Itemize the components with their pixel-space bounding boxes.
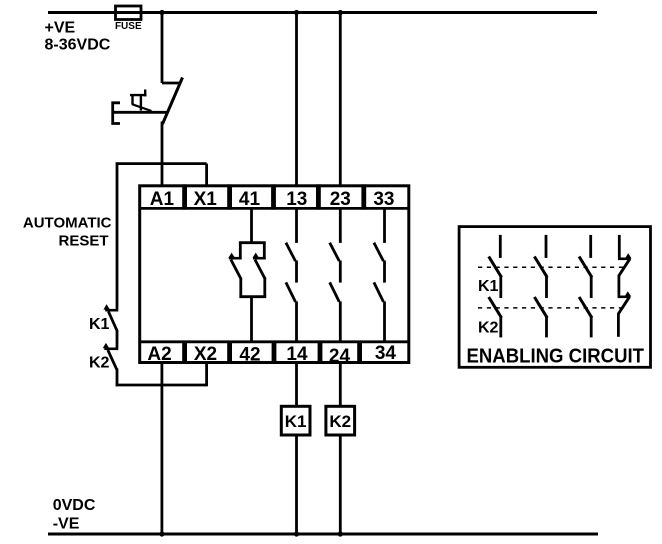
contact K1 NO (reset chain) bbox=[103, 304, 118, 331]
label K2 coil bbox=[329, 412, 351, 431]
wire reset loop left vertical lower bbox=[116, 369, 119, 387]
svg-text:K1: K1 bbox=[89, 316, 110, 333]
enabling circuit box bbox=[459, 227, 650, 368]
svg-text:K2: K2 bbox=[329, 412, 351, 431]
svg-text:K1: K1 bbox=[285, 412, 307, 431]
svg-text:23: 23 bbox=[330, 189, 351, 210]
enabling contact column 4 K2 NC bbox=[618, 275, 632, 337]
wire reset loop top horizontal bbox=[116, 162, 207, 165]
svg-text:K2: K2 bbox=[89, 354, 110, 371]
svg-text:33: 33 bbox=[373, 189, 394, 210]
enabling contact column 2 K2 NO bbox=[534, 277, 547, 338]
wire 24 to coil K2 bbox=[339, 362, 342, 406]
svg-text:AUTOMATIC: AUTOMATIC bbox=[23, 215, 112, 232]
pin 13 bbox=[286, 189, 307, 210]
label K2 enabling bbox=[478, 320, 499, 337]
wire rail to e-stop bbox=[161, 13, 164, 84]
svg-text:RESET: RESET bbox=[58, 232, 108, 249]
label +VE bbox=[45, 20, 76, 37]
wire reset loop left vertical upper bbox=[116, 162, 119, 309]
pin 41 bbox=[239, 189, 261, 210]
svg-text:-VE: -VE bbox=[53, 516, 80, 533]
wire A2 to 0V rail bbox=[160, 362, 163, 534]
fuse F1 bbox=[116, 6, 142, 20]
label K2 (reset chain) bbox=[89, 354, 110, 371]
svg-text:X2: X2 bbox=[194, 344, 217, 365]
node mechanical link K2 (dashed) bbox=[478, 307, 627, 309]
pin 42 bbox=[239, 345, 260, 366]
svg-text:A1: A1 bbox=[150, 189, 175, 210]
enabling contact column 3 K1 NO bbox=[579, 235, 592, 277]
node junction bottom rail / A2 bbox=[159, 531, 164, 536]
svg-text:+VE: +VE bbox=[45, 20, 76, 37]
terminal row bottom: top line bbox=[140, 340, 409, 343]
contact 33-34 K1 NO bbox=[374, 208, 385, 261]
contact 33-34 K2 NO bbox=[374, 261, 385, 342]
node junction bottom rail / K1 bbox=[294, 531, 299, 536]
wire rail to terminal 23 bbox=[339, 13, 342, 188]
pin A1 bbox=[150, 189, 175, 210]
wire 0VDC bottom rail bbox=[48, 533, 598, 536]
pin 14 bbox=[286, 344, 308, 365]
switch S1 latch glyph bbox=[130, 90, 152, 112]
svg-text:K2: K2 bbox=[478, 320, 499, 337]
wire rail to terminal 13 bbox=[295, 13, 298, 188]
svg-text:A2: A2 bbox=[147, 344, 171, 365]
label FUSE bbox=[115, 21, 142, 32]
pin 24 bbox=[329, 346, 351, 367]
wire between K1 and K2 contacts bbox=[116, 331, 119, 348]
coil K2 bbox=[326, 406, 355, 435]
relay U1 outline box bbox=[140, 186, 409, 363]
wire coil K1 to 0V rail bbox=[295, 435, 298, 534]
pin 33 bbox=[373, 189, 394, 210]
pin 34 bbox=[375, 343, 397, 364]
wire coil K2 to 0V rail bbox=[339, 435, 342, 534]
wire X2 stub bbox=[205, 362, 208, 386]
enabling contact column 1 K1 NO bbox=[489, 235, 502, 277]
label K1 (reset chain) bbox=[89, 316, 110, 333]
coil K1 bbox=[281, 406, 310, 435]
pin 23 bbox=[330, 189, 351, 210]
enabling contact column 4 K1 NC bbox=[618, 235, 632, 276]
terminal separators bottom row bbox=[182, 341, 362, 363]
contact K2 NO (reset chain) bbox=[103, 343, 119, 370]
enabling contact column 3 K2 NO bbox=[579, 277, 592, 338]
enabling contact column 1 K2 NO bbox=[489, 277, 502, 338]
svg-text:41: 41 bbox=[239, 189, 261, 210]
label 8-36VDC bbox=[45, 37, 111, 54]
pin A2 bbox=[147, 344, 171, 365]
svg-text:42: 42 bbox=[239, 345, 260, 366]
svg-text:0VDC: 0VDC bbox=[53, 497, 96, 514]
label ENABLING CIRCUIT bbox=[467, 345, 645, 367]
contact 23-24 K2 NO bbox=[330, 261, 341, 342]
node mechanical link K1 (dashed) bbox=[478, 266, 627, 268]
label K1 enabling bbox=[478, 278, 499, 295]
svg-text:8-36VDC: 8-36VDC bbox=[45, 37, 111, 54]
wire reset loop to X1 bbox=[205, 164, 208, 187]
label 0VDC bbox=[53, 497, 96, 514]
svg-text:K1: K1 bbox=[478, 278, 499, 295]
label K1 coil bbox=[285, 412, 307, 431]
node junction top rail / wire 13 bbox=[294, 10, 299, 15]
svg-text:34: 34 bbox=[375, 343, 397, 364]
svg-text:X1: X1 bbox=[194, 189, 218, 210]
node junction top rail / wire 23 bbox=[338, 10, 343, 15]
wire +VE top rail bbox=[48, 11, 597, 14]
switch S1 e-stop NC contact bbox=[162, 78, 183, 125]
wire e-stop to A1 bbox=[161, 122, 164, 188]
label -VE bbox=[53, 516, 80, 533]
label AUTOMATIC bbox=[23, 215, 112, 232]
contact 13-14 K1 NO bbox=[286, 208, 297, 261]
terminal row top: bottom line bbox=[140, 207, 409, 210]
wire reset loop bottom horizontal bbox=[116, 384, 207, 387]
node junction bottom rail / K2 bbox=[338, 531, 343, 536]
enabling contact column 2 K1 NO bbox=[534, 235, 547, 277]
terminal separators top row bbox=[182, 184, 366, 209]
contact 23-24 K1 NO bbox=[330, 208, 341, 261]
contact 41-42 NC forced-guided pair bbox=[228, 208, 266, 341]
contact 13-14 K2 NO bbox=[286, 261, 297, 342]
svg-text:13: 13 bbox=[286, 189, 307, 210]
svg-text:ENABLING CIRCUIT: ENABLING CIRCUIT bbox=[467, 345, 645, 367]
pin X2 bbox=[194, 344, 217, 365]
node junction top rail / e-stop bbox=[159, 10, 164, 15]
label RESET bbox=[58, 232, 108, 249]
svg-text:FUSE: FUSE bbox=[115, 21, 142, 32]
switch S1 actuator mushroom head bbox=[112, 103, 167, 124]
pin X1 bbox=[194, 189, 218, 210]
wire 14 to coil K1 bbox=[295, 362, 298, 406]
